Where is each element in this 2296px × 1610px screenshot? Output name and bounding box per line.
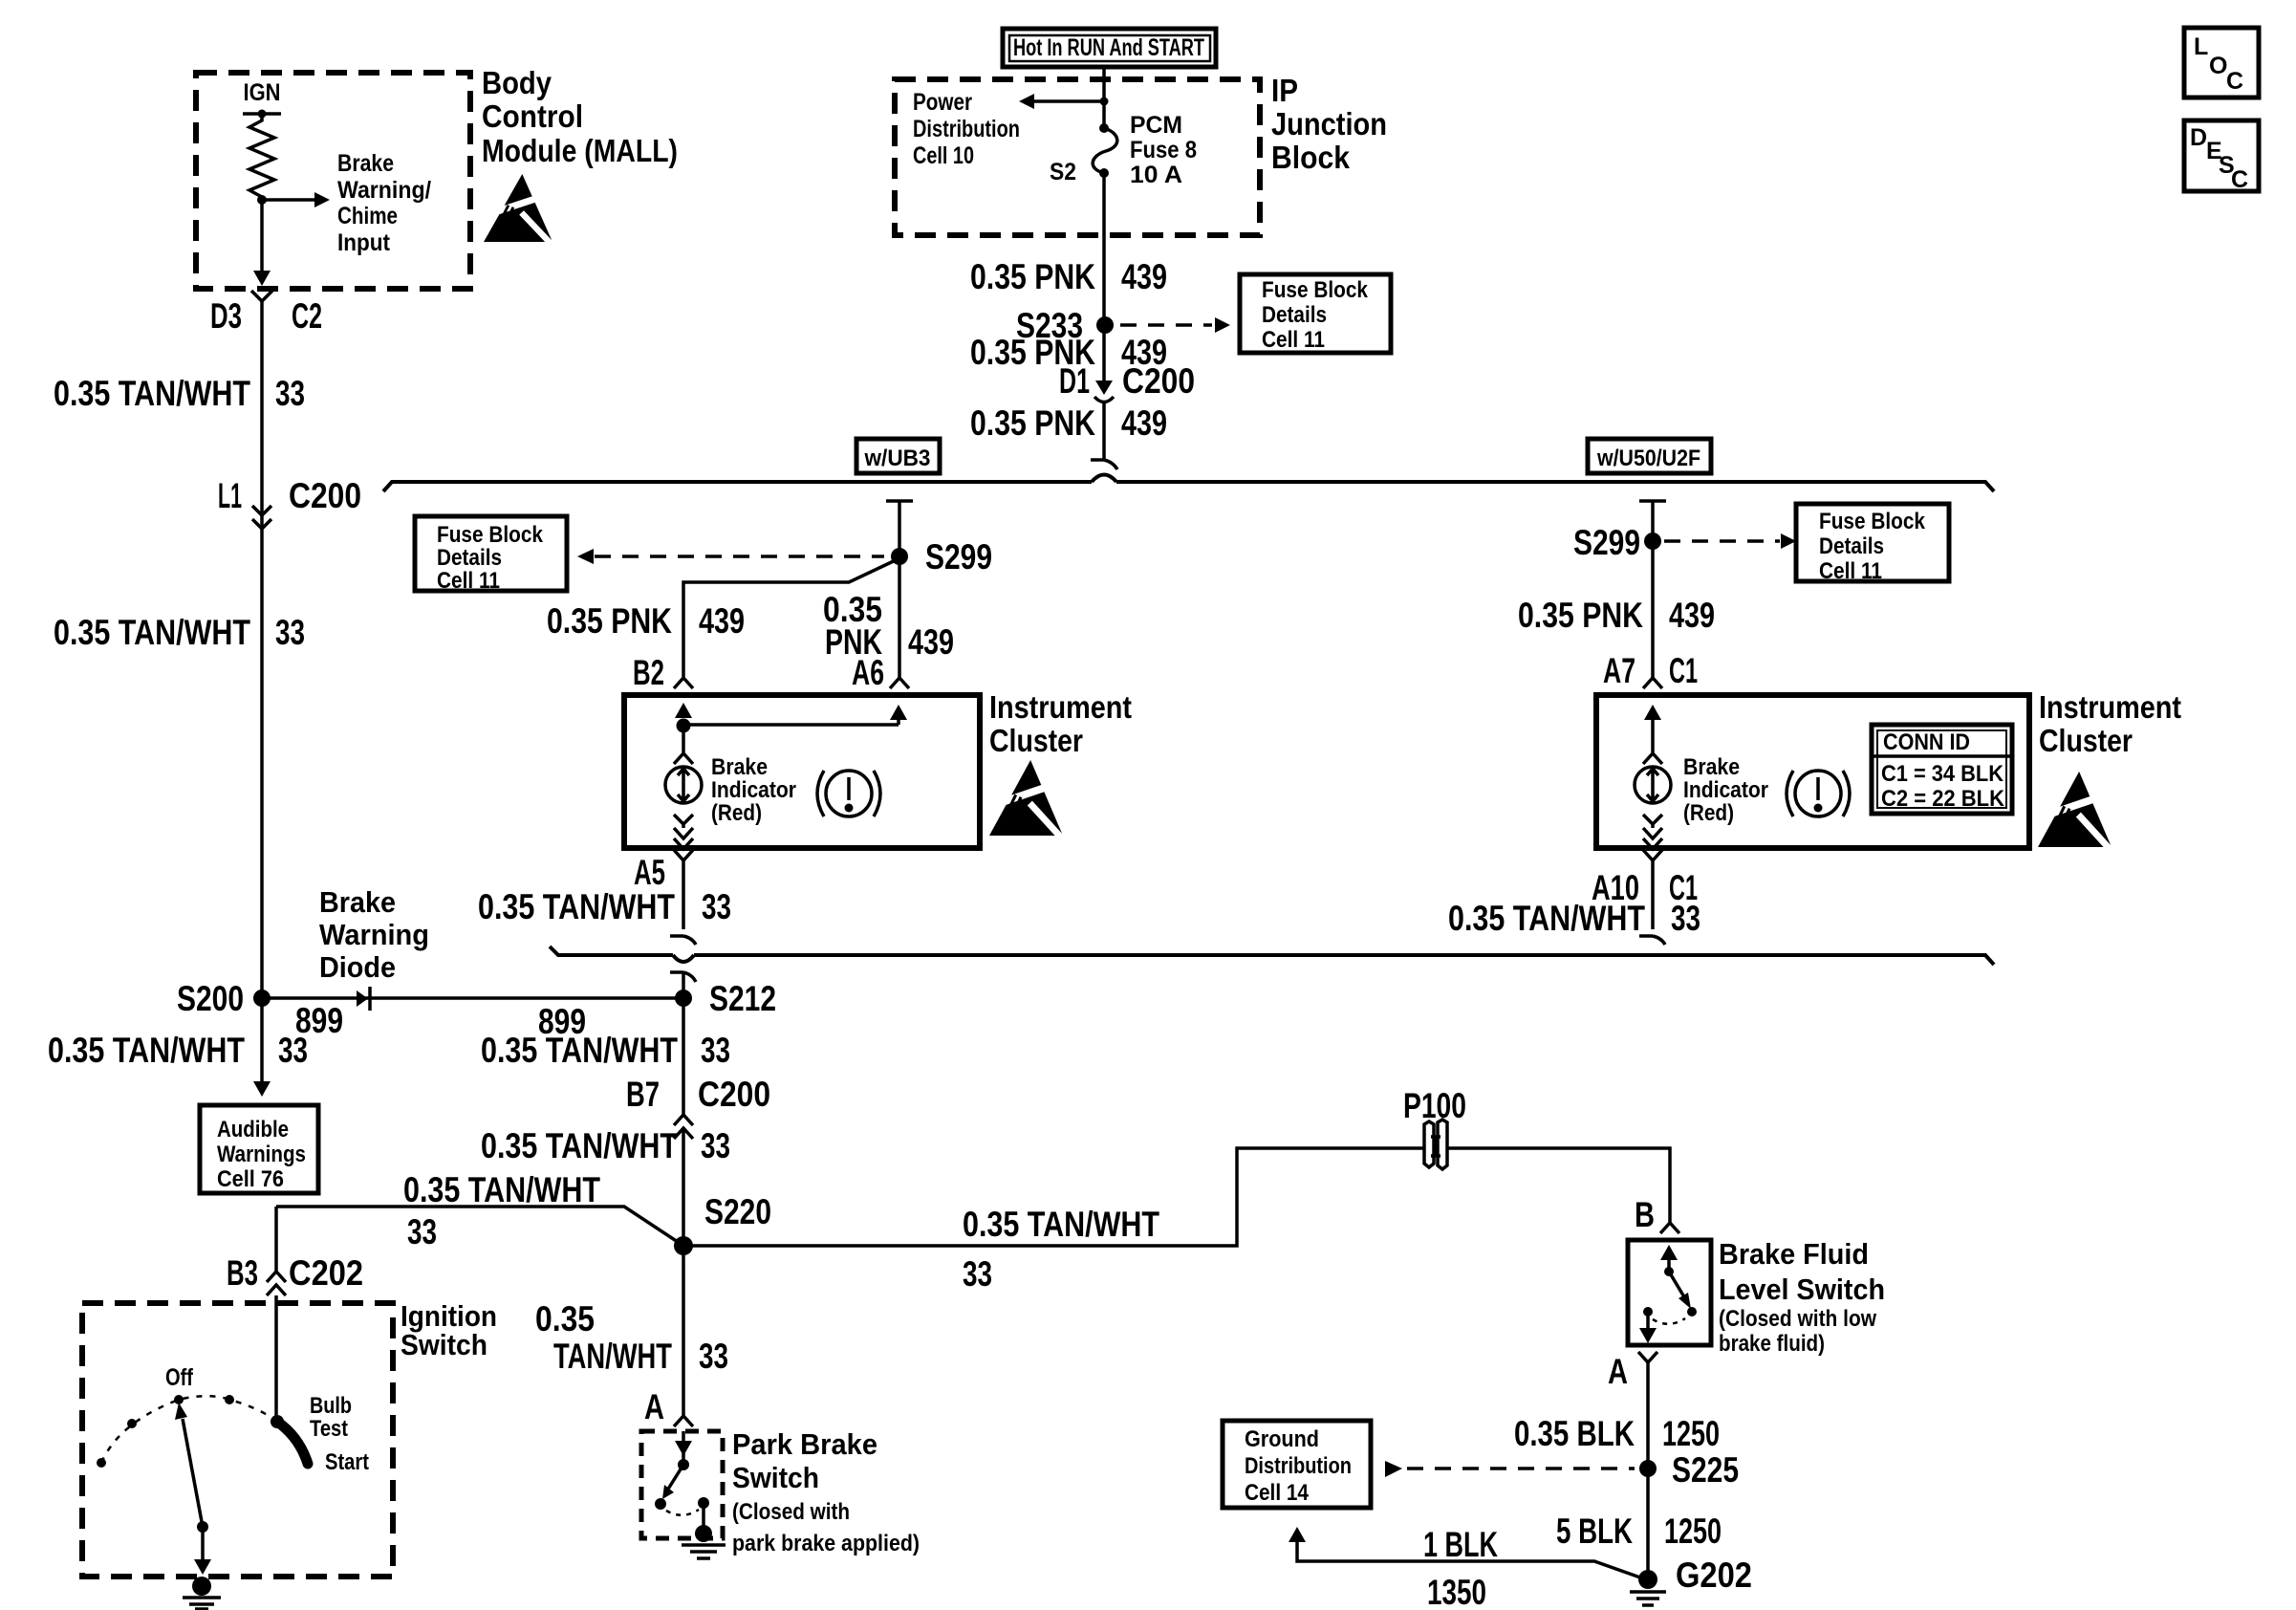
svg-text:C1: C1	[1669, 651, 1698, 690]
svg-text:Instrument: Instrument	[989, 689, 1132, 725]
svg-text:33: 33	[963, 1254, 992, 1294]
svg-text:439: 439	[1121, 257, 1167, 296]
svg-text:D3: D3	[210, 296, 242, 336]
svg-text:S299: S299	[1573, 523, 1640, 562]
svg-text:Cell 14: Cell 14	[1245, 1480, 1310, 1506]
svg-text:0.35 TAN/WHT: 0.35 TAN/WHT	[963, 1205, 1159, 1244]
svg-text:Cluster: Cluster	[989, 723, 1083, 758]
svg-text:A: A	[1608, 1352, 1628, 1391]
svg-text:S200: S200	[177, 979, 244, 1018]
svg-text:Level Switch: Level Switch	[1719, 1273, 1885, 1306]
svg-text:C2 = 22 BLK: C2 = 22 BLK	[1881, 786, 2005, 812]
svg-text:33: 33	[278, 1031, 308, 1070]
svg-text:439: 439	[1121, 403, 1167, 443]
svg-text:33: 33	[1671, 899, 1700, 938]
svg-text:(Closed with low: (Closed with low	[1719, 1306, 1876, 1332]
svg-text:439: 439	[1669, 596, 1715, 635]
svg-text:Park Brake: Park Brake	[732, 1427, 877, 1461]
svg-text:Cell 11: Cell 11	[1262, 327, 1325, 353]
svg-text:IP: IP	[1271, 73, 1298, 108]
svg-text:Audible: Audible	[217, 1117, 289, 1142]
svg-text:C200: C200	[289, 476, 361, 515]
svg-text:G202: G202	[1676, 1556, 1752, 1595]
svg-text:Block: Block	[1271, 140, 1351, 175]
svg-text:S2: S2	[1050, 159, 1076, 185]
svg-text:Junction: Junction	[1271, 106, 1387, 141]
svg-text:Switch: Switch	[401, 1328, 487, 1361]
svg-text:D: D	[2190, 124, 2207, 151]
svg-text:Cell 11: Cell 11	[437, 568, 500, 594]
svg-text:Module (MALL): Module (MALL)	[482, 133, 678, 168]
svg-text:Fuse Block: Fuse Block	[1819, 509, 1926, 534]
svg-text:S212: S212	[709, 979, 776, 1018]
svg-text:C200: C200	[698, 1075, 770, 1114]
svg-text:C2: C2	[292, 296, 322, 336]
svg-text:CONN ID: CONN ID	[1883, 729, 1970, 755]
svg-text:439: 439	[908, 622, 954, 662]
svg-text:Bulb: Bulb	[310, 1393, 352, 1419]
svg-text:B: B	[1635, 1195, 1655, 1234]
svg-text:A7: A7	[1603, 651, 1635, 690]
svg-text:33: 33	[702, 887, 731, 926]
svg-text:PCM: PCM	[1130, 112, 1182, 139]
svg-text:Power: Power	[913, 89, 972, 116]
svg-text:Ground: Ground	[1245, 1426, 1319, 1452]
svg-text:Input: Input	[337, 229, 391, 256]
svg-text:w/U50/U2F: w/U50/U2F	[1596, 446, 1700, 471]
svg-text:B2: B2	[633, 653, 664, 692]
svg-text:L1: L1	[218, 476, 242, 515]
svg-text:33: 33	[701, 1126, 730, 1165]
svg-text:Cell 76: Cell 76	[217, 1166, 284, 1192]
svg-text:1250: 1250	[1664, 1512, 1722, 1551]
svg-text:0.35 TAN/WHT: 0.35 TAN/WHT	[48, 1031, 245, 1070]
svg-text:Diode: Diode	[319, 950, 396, 984]
svg-text:Off: Off	[165, 1364, 194, 1391]
svg-text:1350: 1350	[1427, 1573, 1486, 1610]
svg-text:Cluster: Cluster	[2039, 723, 2133, 758]
svg-text:O: O	[2209, 53, 2227, 79]
svg-text:S299: S299	[925, 537, 992, 577]
svg-text:Switch: Switch	[732, 1461, 819, 1494]
svg-text:Details: Details	[437, 545, 502, 571]
svg-text:Details: Details	[1262, 302, 1327, 328]
svg-text:Brake: Brake	[711, 754, 768, 780]
svg-text:Brake Fluid: Brake Fluid	[1719, 1237, 1869, 1271]
svg-text:brake fluid): brake fluid)	[1719, 1331, 1825, 1357]
svg-text:33: 33	[275, 374, 305, 413]
svg-text:Hot In RUN And START: Hot In RUN And START	[1013, 34, 1204, 61]
svg-text:S220: S220	[704, 1192, 771, 1231]
svg-text:Distribution: Distribution	[913, 116, 1020, 142]
svg-text:Body: Body	[482, 65, 552, 100]
svg-text:33: 33	[701, 1031, 730, 1070]
svg-text:33: 33	[407, 1212, 437, 1251]
svg-text:Distribution: Distribution	[1245, 1453, 1352, 1479]
svg-text:TAN/WHT: TAN/WHT	[553, 1337, 672, 1376]
svg-text:Brake: Brake	[319, 885, 396, 919]
svg-text:Fuse 8: Fuse 8	[1130, 137, 1197, 163]
svg-text:C1 = 34 BLK: C1 = 34 BLK	[1881, 761, 2004, 787]
svg-text:0.35 PNK: 0.35 PNK	[547, 601, 672, 641]
svg-text:A: A	[644, 1387, 664, 1426]
svg-text:Start: Start	[325, 1449, 369, 1475]
svg-text:33: 33	[275, 613, 305, 652]
svg-text:0.35: 0.35	[535, 1299, 595, 1338]
svg-text:Fuse Block: Fuse Block	[437, 522, 544, 548]
svg-text:0.35 PNK: 0.35 PNK	[1518, 596, 1643, 635]
svg-text:33: 33	[699, 1337, 728, 1376]
svg-text:0.35 TAN/WHT: 0.35 TAN/WHT	[1448, 899, 1645, 938]
svg-text:0.35 TAN/WHT: 0.35 TAN/WHT	[403, 1170, 600, 1209]
svg-text:0.35 TAN/WHT: 0.35 TAN/WHT	[481, 1126, 678, 1165]
svg-text:0.35 PNK: 0.35 PNK	[970, 403, 1095, 443]
svg-text:Indicator: Indicator	[711, 777, 796, 803]
svg-text:C: C	[2231, 166, 2248, 193]
svg-text:Indicator: Indicator	[1683, 777, 1768, 803]
svg-text:Instrument: Instrument	[2039, 689, 2181, 725]
svg-text:Brake: Brake	[1683, 754, 1740, 780]
svg-text:0.35 BLK: 0.35 BLK	[1514, 1414, 1635, 1453]
svg-text:(Red): (Red)	[711, 800, 762, 826]
svg-text:C200: C200	[1122, 361, 1195, 401]
svg-text:Warnings: Warnings	[217, 1142, 306, 1167]
svg-text:Warning/: Warning/	[337, 177, 431, 204]
svg-text:Chime: Chime	[337, 203, 398, 229]
svg-text:A6: A6	[852, 653, 884, 692]
svg-text:Warning: Warning	[319, 918, 429, 951]
svg-text:L: L	[2194, 33, 2208, 60]
svg-text:B7: B7	[626, 1075, 660, 1114]
svg-text:S225: S225	[1672, 1450, 1739, 1490]
svg-text:Details: Details	[1819, 533, 1884, 559]
svg-text:(Closed with: (Closed with	[732, 1499, 850, 1525]
svg-text:10 A: 10 A	[1130, 162, 1182, 188]
svg-text:P100: P100	[1403, 1086, 1466, 1125]
svg-text:0.35 TAN/WHT: 0.35 TAN/WHT	[481, 1031, 678, 1070]
svg-text:439: 439	[699, 601, 745, 641]
svg-text:C202: C202	[289, 1253, 363, 1293]
svg-text:5 BLK: 5 BLK	[1556, 1512, 1633, 1551]
svg-text:(Red): (Red)	[1683, 800, 1734, 826]
svg-text:Test: Test	[310, 1416, 348, 1442]
svg-text:Cell 11: Cell 11	[1819, 558, 1882, 584]
svg-text:C: C	[2226, 68, 2243, 95]
svg-text:0.35 TAN/WHT: 0.35 TAN/WHT	[54, 613, 250, 652]
svg-text:A5: A5	[634, 853, 665, 892]
svg-text:Cell 10: Cell 10	[913, 142, 974, 169]
svg-text:1250: 1250	[1662, 1414, 1720, 1453]
svg-text:Brake: Brake	[337, 150, 394, 177]
svg-text:1 BLK: 1 BLK	[1423, 1525, 1498, 1564]
svg-text:park brake applied): park brake applied)	[732, 1531, 920, 1556]
svg-text:D1: D1	[1059, 361, 1090, 401]
svg-text:B3: B3	[227, 1253, 258, 1293]
svg-text:Control: Control	[482, 98, 583, 134]
svg-text:w/UB3: w/UB3	[864, 446, 931, 471]
svg-text:0.35 TAN/WHT: 0.35 TAN/WHT	[478, 887, 675, 926]
svg-text:IGN: IGN	[244, 79, 281, 106]
svg-text:Fuse Block: Fuse Block	[1262, 277, 1369, 303]
svg-text:0.35 TAN/WHT: 0.35 TAN/WHT	[54, 374, 250, 413]
svg-text:0.35 PNK: 0.35 PNK	[970, 257, 1095, 296]
